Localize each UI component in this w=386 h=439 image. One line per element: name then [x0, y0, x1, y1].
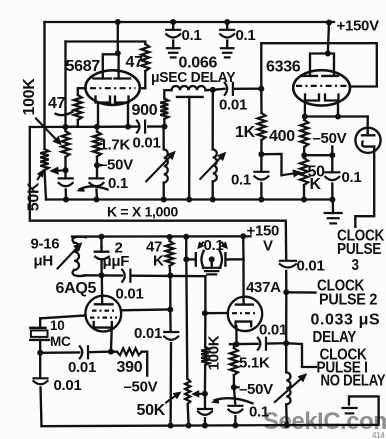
svg-text:0.01: 0.01 — [259, 322, 287, 339]
svg-text:6AQ5: 6AQ5 — [56, 280, 97, 297]
svg-text:10: 10 — [50, 318, 64, 333]
svg-text:0.01: 0.01 — [133, 135, 161, 152]
svg-text:K = X 1,000: K = X 1,000 — [107, 204, 179, 220]
svg-text:μμF: μμF — [103, 253, 130, 270]
svg-text:0.1: 0.1 — [204, 237, 224, 254]
svg-text:MC: MC — [50, 334, 71, 349]
svg-text:0.01: 0.01 — [219, 97, 247, 114]
svg-text:NO DELAY: NO DELAY — [321, 373, 386, 390]
svg-text:414: 414 — [372, 431, 385, 439]
svg-text:5.1K: 5.1K — [239, 355, 270, 372]
svg-text:0.01: 0.01 — [54, 377, 82, 394]
svg-text:V: V — [263, 238, 273, 255]
svg-text:100K: 100K — [21, 78, 38, 116]
svg-text:0.033 μS: 0.033 μS — [311, 312, 381, 329]
svg-text:0.1: 0.1 — [249, 404, 269, 421]
svg-text:50K: 50K — [137, 402, 166, 419]
svg-text:47: 47 — [48, 95, 66, 112]
svg-text:5687: 5687 — [66, 58, 101, 75]
svg-text:0.1: 0.1 — [108, 175, 128, 192]
svg-text:100K: 100K — [206, 335, 223, 370]
svg-text:900: 900 — [132, 102, 158, 119]
svg-text:6336: 6336 — [266, 59, 301, 76]
svg-text:μH: μH — [34, 253, 53, 270]
svg-text:0.1: 0.1 — [342, 169, 362, 186]
svg-text:–50V: –50V — [99, 157, 133, 174]
svg-text:K: K — [310, 176, 322, 193]
svg-text:0.01: 0.01 — [68, 359, 96, 376]
svg-text:0.1: 0.1 — [236, 27, 256, 44]
svg-text:1K: 1K — [235, 124, 256, 141]
svg-text:390: 390 — [117, 359, 143, 376]
svg-text:–50V: –50V — [124, 379, 158, 396]
svg-text:400: 400 — [269, 128, 295, 145]
svg-text:3: 3 — [352, 257, 359, 274]
svg-text:PULSE: PULSE — [337, 241, 382, 258]
svg-text:0.1: 0.1 — [182, 27, 202, 44]
svg-text:+150V: +150V — [337, 18, 380, 35]
svg-text:50K: 50K — [26, 182, 43, 211]
svg-text:SeekIC.com: SeekIC.com — [263, 408, 386, 435]
svg-text:9-16: 9-16 — [31, 236, 60, 253]
svg-text:K: K — [153, 253, 164, 270]
svg-text:–50V: –50V — [313, 130, 347, 147]
svg-text:0.01: 0.01 — [116, 286, 144, 303]
svg-text:0.01: 0.01 — [134, 325, 162, 342]
svg-text:–50V: –50V — [239, 381, 273, 398]
svg-text:0.1: 0.1 — [231, 172, 251, 189]
svg-text:DELAY: DELAY — [313, 329, 357, 346]
svg-text:0.01: 0.01 — [297, 258, 325, 275]
svg-text:47: 47 — [126, 54, 144, 71]
svg-text:μSEC DELAY: μSEC DELAY — [151, 70, 236, 87]
svg-text:437A: 437A — [246, 279, 281, 296]
svg-text:PULSE 2: PULSE 2 — [319, 291, 377, 309]
svg-text:1.7K: 1.7K — [100, 137, 131, 154]
